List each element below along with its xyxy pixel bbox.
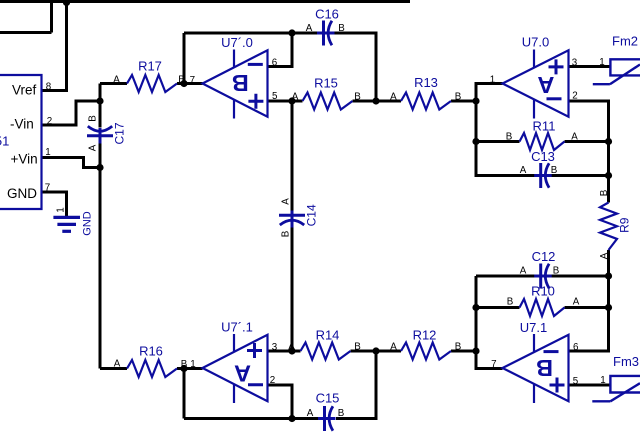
junction node B / pin7 — [180, 80, 187, 87]
wire R17 to U7'.0 pin7 — [177, 82, 203, 85]
ground GND — [53, 207, 93, 235]
svg-text:A: A — [599, 252, 610, 259]
wire R14 lead B — [351, 350, 377, 353]
wire U7.1 pin5 to Fm3 — [569, 384, 611, 387]
junction node B / pin1 — [180, 365, 187, 372]
svg-text:R10: R10 — [531, 283, 555, 298]
resistor R14 — [288, 328, 361, 360]
junction C15-A — [288, 415, 295, 422]
wire R13 lead B — [451, 100, 476, 103]
wire C16 to R15 node — [335, 33, 377, 101]
svg-text:R11: R11 — [533, 118, 556, 133]
IC U? box (cut at left edge) — [0, 75, 52, 209]
svg-text:1: 1 — [56, 207, 67, 212]
resistor R12 — [390, 328, 462, 360]
wire R16 lead A — [100, 367, 127, 370]
resistor R16 — [114, 344, 188, 378]
svg-text:1: 1 — [190, 359, 195, 370]
svg-text:5: 5 — [272, 91, 278, 102]
resistor R13 — [390, 75, 462, 110]
svg-text:B: B — [455, 342, 462, 353]
junction R10-A — [605, 304, 612, 311]
op-amp U7.1 — [491, 320, 579, 403]
svg-text:B: B — [551, 165, 558, 176]
svg-text:7: 7 — [491, 359, 496, 370]
svg-text:6: 6 — [573, 342, 579, 353]
capacitor C17 — [87, 115, 127, 152]
svg-text:1: 1 — [599, 57, 604, 68]
svg-text:R16: R16 — [139, 344, 163, 359]
wire rail to C13 row — [476, 101, 535, 176]
wire U7'.1 pin3 — [268, 350, 293, 353]
svg-text:A: A — [390, 92, 397, 103]
resistor R10 — [507, 283, 580, 316]
junction node +Vin/C17 — [96, 164, 103, 171]
wire R10 lead A — [565, 306, 609, 309]
wire R11 lead B — [476, 140, 520, 143]
svg-text:GND: GND — [82, 211, 94, 236]
wire C12 row right — [551, 275, 609, 278]
svg-text:A: A — [292, 92, 299, 103]
svg-text:A: A — [307, 408, 314, 419]
junction R12-B — [472, 347, 479, 354]
svg-text:B: B — [354, 92, 361, 103]
wire pin6 jog — [268, 33, 293, 67]
resistor R11 — [506, 118, 579, 150]
wire R12 lead B — [451, 350, 476, 353]
svg-text:R13: R13 — [414, 75, 438, 90]
op-amp U7'.1 — [190, 319, 278, 403]
svg-text:C12: C12 — [532, 249, 556, 264]
svg-text:C16: C16 — [315, 6, 339, 21]
svg-text:B: B — [507, 297, 514, 308]
wire C14 rail lower — [291, 227, 294, 352]
svg-text:R15: R15 — [314, 76, 338, 91]
svg-text:R12: R12 — [413, 328, 437, 343]
svg-text:3: 3 — [572, 57, 578, 68]
op-amp U7'.0 — [190, 35, 278, 119]
junction C12-B — [605, 272, 612, 279]
svg-text:B: B — [281, 230, 292, 237]
resistor R9 — [599, 189, 632, 259]
junction node -Vin/C17 — [96, 97, 103, 104]
svg-text:1: 1 — [600, 375, 605, 386]
wire feedback vertical — [183, 33, 186, 84]
wire R16 to U7'.1 pin1 — [177, 367, 203, 370]
wire U7'.1 pin2 jog — [268, 385, 293, 419]
junction top bus — [63, 0, 70, 6]
svg-text:R17: R17 — [138, 58, 162, 73]
capacitor C15 — [307, 391, 345, 432]
connector Fm3 — [592, 354, 640, 401]
wire pin7 to ground — [42, 192, 67, 216]
wire pin2 to node — [42, 101, 101, 125]
wire left rail upper — [99, 84, 102, 128]
wire U7.0 pin3 to Fm2 — [569, 65, 611, 68]
svg-text:U7.0: U7.0 — [522, 35, 549, 50]
wire U7.0 pin2 jog — [569, 101, 609, 142]
svg-text:2: 2 — [270, 375, 275, 386]
wire top bus — [0, 0, 410, 3]
junction R11-B — [472, 138, 479, 145]
svg-text:6: 6 — [272, 57, 278, 68]
wire R14 lead A — [292, 350, 301, 353]
wire C12 left vertical — [475, 276, 478, 308]
connector Fm2 — [593, 34, 640, 85]
svg-text:GND: GND — [7, 186, 37, 201]
svg-text:Fm3: Fm3 — [613, 354, 639, 369]
junction node R13-B / pin1 — [472, 97, 479, 104]
svg-text:B: B — [354, 342, 361, 353]
svg-text:U7.1: U7.1 — [520, 320, 547, 335]
wire feedback top to C16 — [184, 32, 318, 35]
svg-text:B: B — [88, 115, 99, 122]
junction R11-A — [605, 138, 612, 145]
svg-text:B: B — [455, 92, 462, 103]
junction node A / pin5 — [288, 97, 295, 104]
resistor R17 — [113, 58, 185, 92]
svg-text:R9: R9 — [618, 217, 632, 233]
junction C13-B — [605, 172, 612, 179]
svg-text:U7´.0: U7´.0 — [221, 35, 253, 50]
junction node R15-B/R13-A — [372, 97, 379, 104]
svg-text:-Vin: -Vin — [10, 116, 34, 131]
svg-text:8: 8 — [46, 82, 52, 93]
junction R10-B — [472, 304, 479, 311]
wire R14 node to C15 — [336, 351, 376, 419]
svg-text:7: 7 — [190, 75, 195, 86]
op-amp U7.0 — [490, 35, 578, 119]
wire R9 to U7.1 pin6 — [569, 250, 609, 351]
capacitor C13 — [520, 149, 558, 188]
svg-text:A: A — [571, 132, 578, 143]
svg-text:B: B — [553, 266, 560, 277]
svg-text:B: B — [232, 70, 249, 96]
wire rail to U7.1 pin7 — [476, 308, 503, 369]
svg-text:5: 5 — [573, 376, 579, 387]
svg-text:1: 1 — [490, 75, 495, 86]
svg-text:A: A — [306, 23, 313, 34]
wire R17 lead A — [100, 82, 127, 85]
svg-text:2: 2 — [47, 116, 52, 127]
capacitor C16 — [306, 6, 346, 45]
wire stub horizontal — [0, 31, 52, 34]
svg-text:Vref: Vref — [12, 82, 37, 97]
svg-text:B: B — [536, 355, 553, 381]
junction node A / C16 — [288, 29, 295, 36]
junction R14-B/R12-A — [372, 347, 379, 354]
svg-text:A: A — [234, 361, 251, 387]
svg-text:C15: C15 — [316, 391, 340, 406]
wire pin1 to node — [42, 158, 101, 168]
svg-text:3: 3 — [272, 342, 278, 353]
wire to U7.0 pin1 — [476, 84, 503, 102]
wire stub vertical — [50, 0, 53, 33]
svg-text:A: A — [114, 359, 121, 370]
svg-text:51: 51 — [0, 134, 9, 149]
wire R12 lead A — [376, 350, 401, 353]
wire R15 to R13 — [353, 100, 402, 103]
svg-text:A: A — [537, 72, 554, 98]
svg-text:A: A — [113, 75, 120, 86]
svg-text:7: 7 — [45, 183, 50, 194]
wire C12 row left — [476, 275, 535, 278]
svg-text:A: A — [281, 198, 292, 205]
svg-text:B: B — [181, 359, 188, 370]
wire feedback vertical bottom — [183, 369, 186, 419]
svg-text:C14: C14 — [305, 204, 319, 226]
wire C14 rail upper — [291, 101, 294, 213]
svg-text:B: B — [599, 189, 610, 196]
svg-text:B: B — [338, 23, 345, 34]
svg-text:1: 1 — [45, 147, 50, 158]
svg-text:A: A — [573, 297, 580, 308]
svg-text:Fm2: Fm2 — [612, 34, 638, 49]
svg-text:A: A — [520, 165, 527, 176]
svg-text:A: A — [390, 342, 397, 353]
wire feedback bottom to C15 — [184, 417, 318, 420]
junction node A / pin3 — [288, 347, 295, 354]
svg-text:C17: C17 — [113, 122, 127, 144]
wire rail to R9 — [607, 142, 610, 203]
svg-text:B: B — [338, 408, 345, 419]
svg-text:A: A — [88, 144, 99, 151]
capacitor C14 — [279, 198, 319, 238]
wire R11 lead A — [565, 140, 609, 143]
wire pin5 to R15 — [268, 100, 303, 103]
svg-text:A: A — [288, 342, 295, 353]
svg-text:+Vin: +Vin — [11, 151, 38, 166]
svg-text:B: B — [506, 132, 513, 143]
svg-text:2: 2 — [572, 91, 577, 102]
resistor R15 — [292, 76, 362, 110]
svg-text:R14: R14 — [316, 328, 340, 343]
svg-text:A: A — [520, 266, 527, 277]
svg-text:B: B — [178, 75, 185, 86]
capacitor C12 — [520, 249, 560, 289]
svg-text:U7´.1: U7´.1 — [221, 319, 253, 334]
wire pin8 to top bus — [42, 2, 67, 91]
svg-text:C13: C13 — [531, 149, 555, 164]
wire R10 lead B — [476, 306, 520, 309]
wire C13 to rail — [551, 174, 609, 177]
wire left rail lower — [99, 142, 102, 369]
